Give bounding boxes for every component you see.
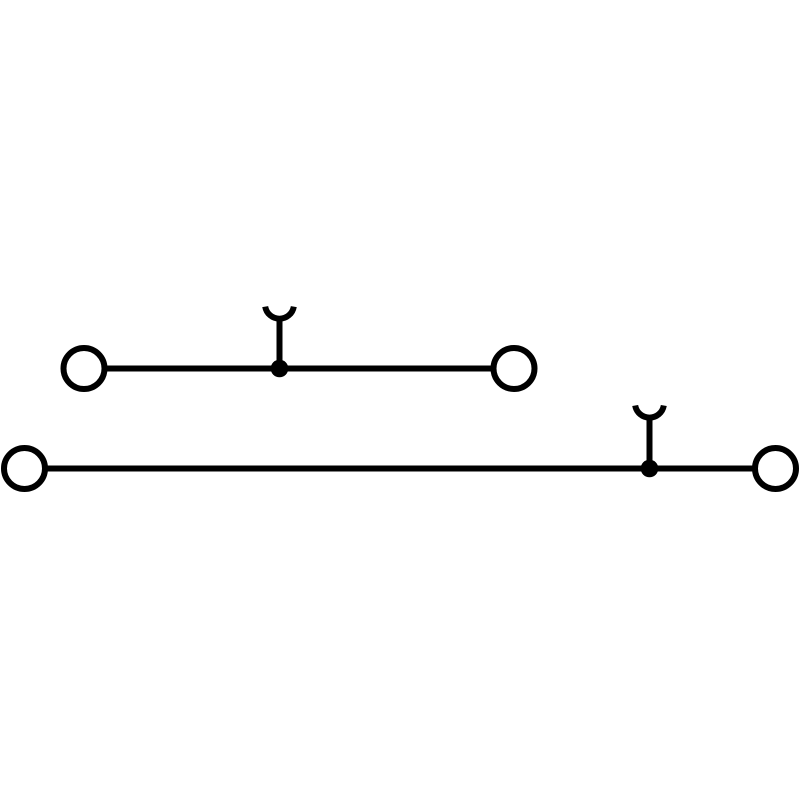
test socket (upper level fork symbol)	[265, 307, 294, 319]
wire (upper tap stem)	[277, 319, 283, 369]
wire (lower level conductor)	[45, 466, 755, 472]
junction dot (upper level tap node)	[271, 360, 289, 378]
junction dot (lower level tap node)	[641, 460, 659, 478]
terminal circle 2.2 (lower level, right clamp)	[755, 448, 796, 489]
wire (upper level conductor)	[105, 366, 494, 372]
terminal circle 1.1 (upper level, left clamp)	[64, 348, 105, 389]
test socket (lower level fork symbol)	[635, 406, 664, 418]
wire (lower tap stem)	[647, 418, 653, 469]
terminal circle 1.2 (upper level, right clamp)	[494, 348, 535, 389]
terminal circle 2.1 (lower level, left clamp)	[4, 448, 45, 489]
